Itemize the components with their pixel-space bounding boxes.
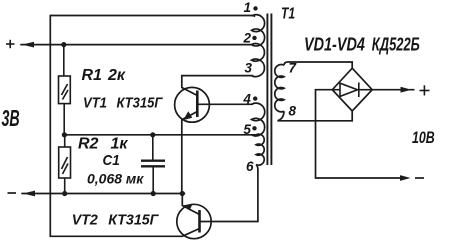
resistor R2 <box>59 135 71 194</box>
svg-text:КТ315Г: КТ315Г <box>117 95 163 111</box>
wire VT1 emitter vertical to minus rail <box>181 120 183 194</box>
svg-text:КД522Б: КД522Б <box>372 35 420 55</box>
wire secondary 8 to bridge bottom <box>278 111 353 121</box>
transistor VT2 <box>177 204 211 238</box>
svg-text:VT2: VT2 <box>72 212 98 228</box>
transistor VT1 emitter arrow <box>183 111 192 120</box>
wire VT1 base to terminal 4 <box>197 103 252 105</box>
plus sign input <box>6 40 15 48</box>
arrow input plus <box>22 42 34 48</box>
transformer T1 feedback winding 4-5 <box>252 103 265 136</box>
junction node 5 / R1 bottom <box>62 132 67 137</box>
transformer T1 primary winding 1-2 <box>252 15 265 46</box>
svg-text:1к: 1к <box>111 136 129 153</box>
transformer T1 feedback winding 5-6 <box>256 134 264 170</box>
junction node R1 top <box>61 42 66 47</box>
wire bridge minus: left corner down to output <box>316 90 404 178</box>
svg-text:VD1-VD4: VD1-VD4 <box>304 34 365 55</box>
phase dot winding 1 <box>253 6 257 10</box>
svg-text:R1: R1 <box>82 67 103 84</box>
junction node C1 top <box>150 132 155 137</box>
svg-text:3: 3 <box>245 60 253 75</box>
svg-text:1: 1 <box>244 0 252 15</box>
svg-text:Т1: Т1 <box>281 4 295 22</box>
transistor VT1 <box>175 87 210 122</box>
svg-text:6: 6 <box>246 159 254 174</box>
junction node R2 bottom <box>62 191 67 196</box>
svg-text:R2: R2 <box>78 136 99 153</box>
resistor R1 <box>59 45 71 135</box>
transformer T1 primary winding 2-3 <box>252 44 265 77</box>
transformer T1 secondary winding 7-8 <box>275 65 284 112</box>
wire VT2 base to terminal 6 <box>200 171 258 222</box>
svg-text:3В: 3В <box>2 107 20 132</box>
wire top rail (terminal 1 to left rail) <box>50 15 254 18</box>
wire secondary 7 to bridge top <box>284 62 352 68</box>
svg-text:10В: 10В <box>412 129 435 147</box>
diode bridge VD1-VD4 diamond <box>332 68 372 111</box>
wire node5 horizontal (R1 bottom, C1 top, terminal 5) <box>65 134 257 136</box>
wire bridge plus output <box>372 89 414 91</box>
arrow output minus <box>400 175 411 181</box>
junction node VT2 emitter <box>180 191 185 196</box>
transformer T1 core <box>267 14 271 166</box>
wire VT1 collector to terminal 3 <box>182 76 253 88</box>
minus sign output <box>415 177 424 179</box>
wire minus input rail <box>22 193 185 195</box>
plus sign output <box>420 85 430 95</box>
svg-text:8: 8 <box>289 104 297 119</box>
transistor VT2 emitter arrow <box>184 204 193 211</box>
diode symbol inside bridge <box>334 83 372 98</box>
svg-text:4: 4 <box>242 92 251 107</box>
wire bottom rail (left rail to VT2 collector) <box>50 235 182 237</box>
wire plus input to winding terminal 2 <box>21 44 252 46</box>
svg-text:2к: 2к <box>107 67 126 84</box>
junction node C1 bottom <box>151 191 156 196</box>
svg-text:0,068 мк: 0,068 мк <box>87 171 144 187</box>
arrow output plus <box>401 87 412 93</box>
svg-text:КТ315Г: КТ315Г <box>108 212 159 228</box>
svg-text:VT1: VT1 <box>83 95 107 111</box>
svg-text:С1: С1 <box>103 152 120 169</box>
capacitor C1 <box>141 135 165 194</box>
phase dot winding 4 <box>253 96 257 100</box>
wire left rail vertical <box>49 16 51 237</box>
arrow input minus <box>23 191 35 197</box>
phase dot winding 5 <box>252 126 256 130</box>
minus sign input <box>8 192 17 194</box>
svg-text:2: 2 <box>243 31 252 46</box>
wire VT2 emitter vertical <box>181 194 183 206</box>
phase dot winding 2 <box>252 36 256 40</box>
svg-text:5: 5 <box>243 122 251 137</box>
